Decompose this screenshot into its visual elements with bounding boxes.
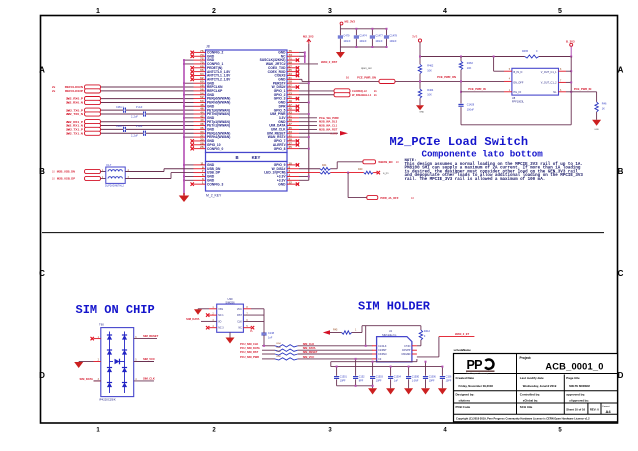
svg-text:C138: C138 xyxy=(268,332,275,335)
svg-text:B_3V3: B_3V3 xyxy=(566,39,575,43)
svg-text:VSS: VSS xyxy=(218,308,223,311)
svg-text:xGlobal by:: xGlobal by: xyxy=(523,399,538,403)
svg-text:ACB_0001_0: ACB_0001_0 xyxy=(545,361,603,371)
svg-text:SIM_CLK: SIM_CLK xyxy=(143,377,155,381)
svg-text:SIM_VCC: SIM_VCC xyxy=(143,357,155,361)
svg-text:10PF: 10PF xyxy=(429,379,435,382)
svg-text:CONFIG_3: CONFIG_3 xyxy=(207,182,223,186)
svg-text:10K: 10K xyxy=(427,94,432,97)
svg-text:C1504: C1504 xyxy=(394,376,402,379)
svg-text:Wednesday, June12 2019: Wednesday, June12 2019 xyxy=(523,384,557,388)
svg-text:B_IN_N: B_IN_N xyxy=(514,71,523,74)
svg-text:2_2uF: 2_2uF xyxy=(131,115,138,118)
svg-text:C1477: C1477 xyxy=(375,34,383,37)
svg-text:SIM ON CHIP: SIM ON CHIP xyxy=(76,303,155,317)
svg-text:C1474: C1474 xyxy=(359,34,367,37)
svg-text:Controlled by:: Controlled by: xyxy=(520,393,540,397)
svg-text:xApproved by:: xApproved by: xyxy=(569,399,589,403)
svg-text:3V3: 3V3 xyxy=(412,35,418,39)
svg-text:R46: R46 xyxy=(602,103,607,106)
svg-text:C479: C479 xyxy=(343,34,350,37)
svg-text:GND: GND xyxy=(419,112,424,114)
svg-text:PG_IO: PG_IO xyxy=(514,91,522,94)
svg-text:C1429: C1429 xyxy=(467,104,475,107)
svg-text:CONFIG_0: CONFIG_0 xyxy=(207,147,223,151)
svg-text:RN4: RN4 xyxy=(276,351,281,353)
svg-text:26: 26 xyxy=(200,145,204,149)
svg-text:C6/VPP: C6/VPP xyxy=(402,349,411,352)
svg-text:M2B_WA_DL3: M2B_WA_DL3 xyxy=(319,120,338,124)
svg-text:rail. The MPCIE_3V3 rail is al: rail. The MPCIE_3V3 rail is allowed a ma… xyxy=(405,177,546,182)
svg-text:D: D xyxy=(39,371,45,380)
svg-text:100nF: 100nF xyxy=(359,40,367,43)
svg-text:open_out: open_out xyxy=(361,67,372,70)
svg-text:1nF: 1nF xyxy=(268,337,273,340)
svg-text:SCH title: SCH title xyxy=(520,405,533,409)
svg-text:R465: R465 xyxy=(522,50,529,53)
svg-text:SIM_VCC: SIM_VCC xyxy=(303,355,315,359)
svg-text:PCIe_WA_PWR: PCIe_WA_PWR xyxy=(319,116,339,120)
svg-text:M2B_USB_DN: M2B_USB_DN xyxy=(57,170,75,174)
svg-text:C2/RST: C2/RST xyxy=(378,349,387,352)
svg-text:C8/GND: C8/GND xyxy=(401,353,410,356)
svg-text:R463: R463 xyxy=(467,62,474,65)
svg-text:PCB Code: PCB Code xyxy=(456,405,471,409)
svg-text:10PF: 10PF xyxy=(446,379,452,382)
svg-text:PWR_JA_OFF: PWR_JA_OFF xyxy=(380,196,398,200)
svg-text:PCE_PWR_IN: PCE_PWR_IN xyxy=(574,87,592,91)
svg-text:CLK: CLK xyxy=(237,320,242,323)
svg-text:T60: T60 xyxy=(99,322,104,326)
svg-text:A_W3: A_W3 xyxy=(330,132,337,135)
svg-text:C1506: C1506 xyxy=(429,376,437,379)
svg-text:Sheet 10 of 16: Sheet 10 of 16 xyxy=(566,408,585,412)
svg-text:Copyright (C) 2018-2019, Pere: Copyright (C) 2018-2019, Pere Progress C… xyxy=(456,416,590,420)
svg-text:8PF: 8PF xyxy=(359,379,364,382)
svg-text:approved by:: approved by: xyxy=(566,393,585,397)
svg-text:C1/CLK: C1/CLK xyxy=(378,345,387,348)
svg-text:Pere Progress Community: Pere Progress Community xyxy=(466,372,488,375)
svg-text:J8: J8 xyxy=(206,45,210,49)
svg-text:PCU_SIM_RST: PCU_SIM_RST xyxy=(240,350,259,354)
svg-text:C281 1: C281 1 xyxy=(116,106,124,109)
svg-text:RN4: RN4 xyxy=(276,356,281,358)
svg-text:SIM2S6: SIM2S6 xyxy=(225,300,235,304)
svg-text:R412: R412 xyxy=(424,330,431,333)
svg-text:PCE_PWR_ON: PCE_PWR_ON xyxy=(437,75,456,79)
svg-text:B: B xyxy=(235,155,238,160)
svg-text:1: 1 xyxy=(96,8,100,15)
svg-text:EN_OFF: EN_OFF xyxy=(514,82,524,85)
svg-text:schedaName: schedaName xyxy=(454,348,472,352)
svg-text:5: 5 xyxy=(558,8,562,15)
svg-text:NC: NC xyxy=(238,327,242,330)
svg-text:M2_3V3: M2_3V3 xyxy=(303,35,314,39)
svg-text:WWAN_EN: WWAN_EN xyxy=(378,160,392,164)
svg-text:RST: RST xyxy=(237,314,242,317)
svg-text:NC 1: NC 1 xyxy=(218,314,224,317)
svg-text:U30: U30 xyxy=(228,297,233,301)
svg-text:Last modify date: Last modify date xyxy=(520,376,544,380)
svg-text:1.0NF: 1.0NF xyxy=(412,379,419,382)
svg-text:V_OUT_C1_1: V_OUT_C1_1 xyxy=(541,71,557,74)
svg-text:CLKREQ-L#: CLKREQ-L# xyxy=(352,89,367,93)
svg-text:SIM HOLDER: SIM HOLDER xyxy=(358,300,431,314)
svg-text:SIM_CLK: SIM_CLK xyxy=(303,342,315,346)
svg-text:R44: R44 xyxy=(322,164,327,167)
svg-text:100nF: 100nF xyxy=(467,109,475,112)
svg-text:C156: C156 xyxy=(446,376,452,379)
svg-text:W_DISABLE-L1: W_DISABLE-L1 xyxy=(352,93,372,97)
svg-text:M2LTE MODEM: M2LTE MODEM xyxy=(569,384,590,388)
svg-text:Project:: Project: xyxy=(520,356,532,360)
svg-text:SIM_DATA: SIM_DATA xyxy=(186,317,199,321)
svg-text:Format: Format xyxy=(603,405,610,408)
svg-text:M2_TX0_N: M2_TX0_N xyxy=(67,112,83,116)
svg-text:A4: A4 xyxy=(606,409,612,414)
svg-text:2_2uF: 2_2uF xyxy=(131,135,138,138)
svg-text:FL7: FL7 xyxy=(107,163,112,167)
svg-text:PCU_SIM_DATA: PCU_SIM_DATA xyxy=(240,346,260,350)
svg-text:C1478: C1478 xyxy=(390,34,398,37)
svg-text:M2_TX1_N: M2_TX1_N xyxy=(67,131,83,135)
svg-text:C150E: C150E xyxy=(412,376,420,379)
svg-text:J4: J4 xyxy=(389,329,392,333)
svg-text:M2B_WA_RST: M2B_WA_RST xyxy=(319,127,338,131)
svg-text:Created Date: Created Date xyxy=(456,376,475,380)
svg-text:10PF: 10PF xyxy=(340,379,346,382)
svg-text:C1501: C1501 xyxy=(340,376,348,379)
svg-text:R40: R40 xyxy=(358,168,363,171)
svg-text:C: C xyxy=(39,269,45,278)
svg-text:SIM_RESET: SIM_RESET xyxy=(143,334,159,338)
svg-text:100nF: 100nF xyxy=(390,40,398,43)
svg-text:M2B_WA_CL1: M2B_WA_CL1 xyxy=(319,124,338,128)
svg-text:C152: C152 xyxy=(359,376,365,379)
svg-text:NC 3: NC 3 xyxy=(218,327,224,330)
svg-text:1K: 1K xyxy=(602,108,605,111)
svg-text:2x: 2x xyxy=(52,89,56,93)
svg-text:C: C xyxy=(618,269,624,278)
svg-text:GPIO_8: GPIO_8 xyxy=(274,147,286,151)
svg-text:M2_3V3: M2_3V3 xyxy=(345,20,356,24)
svg-text:Componente lato bottom: Componente lato bottom xyxy=(422,149,544,160)
svg-text:WAN_2_ET: WAN_2_ET xyxy=(455,332,470,336)
svg-text:Designed by:: Designed by: xyxy=(456,393,475,397)
svg-text:PP: PP xyxy=(467,358,483,372)
svg-text:100nF: 100nF xyxy=(375,40,383,43)
svg-text:C7/IO: C7/IO xyxy=(404,345,410,348)
svg-text:A: A xyxy=(39,66,45,75)
svg-text:VCC: VCC xyxy=(237,308,242,311)
svg-text:SIM_RESET: SIM_RESET xyxy=(303,350,318,354)
svg-text:PCE_PWR_ON: PCE_PWR_ON xyxy=(357,76,376,80)
svg-text:WAN_2_RST: WAN_2_RST xyxy=(321,60,337,64)
svg-text:C283 1: C283 1 xyxy=(116,125,124,128)
svg-text:SIM_DATA: SIM_DATA xyxy=(80,377,93,381)
svg-text:12: 12 xyxy=(289,181,293,185)
svg-text:GND: GND xyxy=(594,129,599,131)
svg-text:DLP2ADN67HL2: DLP2ADN67HL2 xyxy=(105,185,125,188)
svg-text:2: 2 xyxy=(212,8,216,15)
svg-text:V_OUT_C1_2: V_OUT_C1_2 xyxy=(541,82,557,85)
svg-text:Friday, November 09,2018: Friday, November 09,2018 xyxy=(459,384,494,388)
svg-text:10K: 10K xyxy=(427,69,432,72)
svg-text:C1503: C1503 xyxy=(376,376,384,379)
svg-text:3: 3 xyxy=(328,8,332,15)
svg-text:M2_PCIe Load Switch: M2_PCIe Load Switch xyxy=(390,135,529,149)
svg-text:B: B xyxy=(618,167,624,176)
svg-text:PCU_SIM_CLK: PCU_SIM_CLK xyxy=(240,342,258,346)
svg-text:10PF: 10PF xyxy=(376,379,382,382)
svg-text:PCU_SIM_PWR: PCU_SIM_PWR xyxy=(240,355,259,359)
svg-text:A: A xyxy=(618,66,624,75)
svg-text:PCE_PWR_IN: PCE_PWR_IN xyxy=(468,87,486,91)
svg-text:100nF: 100nF xyxy=(343,40,351,43)
svg-text:P 2uF: P 2uF xyxy=(136,106,143,109)
svg-text:D: D xyxy=(618,371,624,380)
svg-text:RN4: RN4 xyxy=(276,343,281,345)
svg-text:B: B xyxy=(39,167,45,176)
svg-text:R462: R462 xyxy=(427,65,434,68)
svg-text:REFCLK0#P: REFCLK0#P xyxy=(65,89,83,93)
svg-text:R45: R45 xyxy=(333,329,338,332)
svg-text:RN4: RN4 xyxy=(276,347,281,349)
svg-text:SIM_DATA: SIM_DATA xyxy=(303,346,316,350)
svg-text:4: 4 xyxy=(443,8,447,15)
svg-text:SIM slide fm: SIM slide fm xyxy=(382,333,396,337)
svg-text:IP4220CZ6/K: IP4220CZ6/K xyxy=(99,397,116,401)
svg-text:FPF1003L: FPF1003L xyxy=(512,100,525,104)
svg-text:REV: 0: REV: 0 xyxy=(590,408,599,412)
svg-text:10K: 10K xyxy=(467,67,472,70)
svg-text:silutions: silutions xyxy=(459,399,471,403)
svg-text:M2B_USB_DP: M2B_USB_DP xyxy=(57,177,75,181)
svg-text:25: 25 xyxy=(289,145,293,149)
svg-text:M_2_KEY: M_2_KEY xyxy=(206,194,222,198)
svg-text:P 2uF: P 2uF xyxy=(136,125,143,128)
svg-text:C3/PG0: C3/PG0 xyxy=(378,353,387,356)
svg-text:GND: GND xyxy=(278,182,286,186)
svg-text:Page title: Page title xyxy=(566,376,580,380)
svg-text:KEY: KEY xyxy=(252,155,261,160)
svg-text:a_jm: a_jm xyxy=(383,172,388,175)
svg-text:M2_RX0_N: M2_RX0_N xyxy=(67,101,84,105)
svg-text:U8: U8 xyxy=(512,96,516,100)
svg-text:R464: R464 xyxy=(427,89,434,92)
svg-text:I/O: I/O xyxy=(218,320,221,323)
svg-text:1uF: 1uF xyxy=(394,379,399,382)
